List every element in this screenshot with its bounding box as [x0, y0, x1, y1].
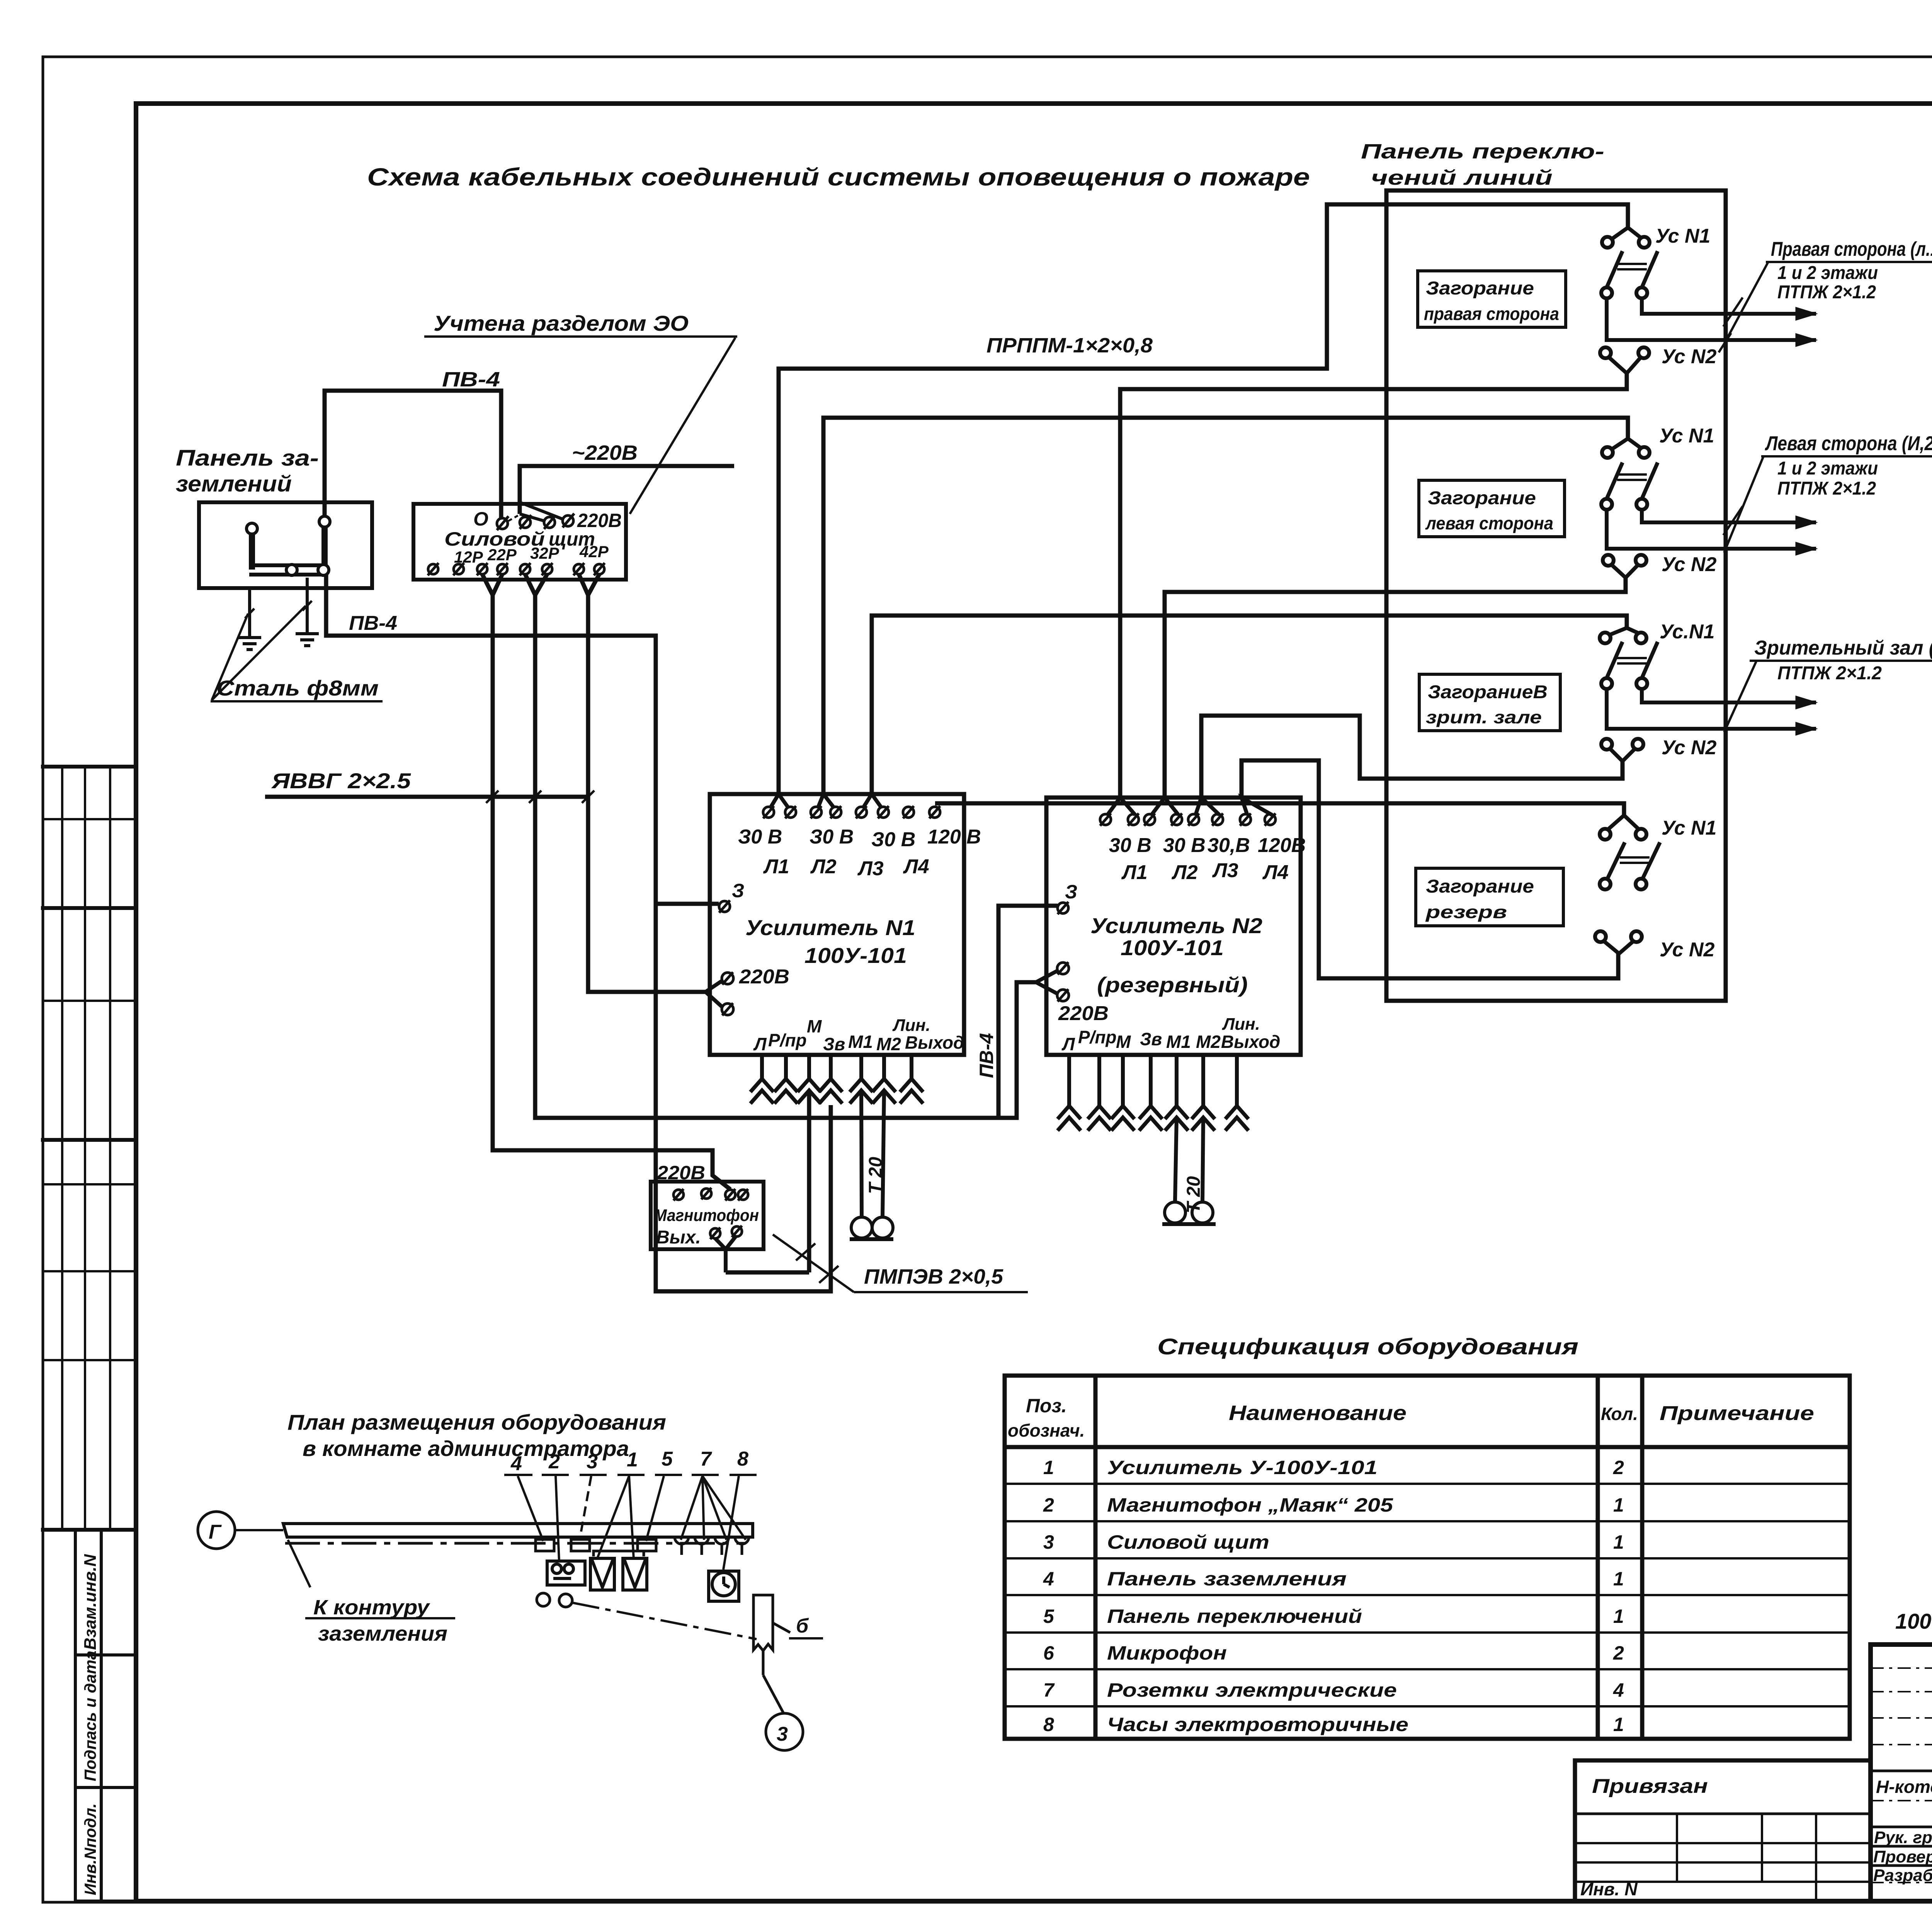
svg-text:ЗагораниеВ: ЗагораниеВ [1428, 682, 1548, 702]
wire: ~220V from щит to right [520, 466, 734, 522]
svg-text:землений: землений [176, 471, 292, 497]
svg-text:резерв: резерв [1425, 902, 1507, 922]
signal box Загорание правая сторона [1418, 271, 1566, 327]
svg-text:Инв. N: Инв. N [1580, 1879, 1638, 1899]
svg-text:К контуру: К контуру [313, 1596, 430, 1619]
arrow pair 1 output [1719, 298, 1816, 352]
svg-text:Р/пр: Р/пр [768, 1030, 807, 1050]
svg-text:1: 1 [1613, 1568, 1624, 1590]
switch group 4: Ус N2 selector [1595, 931, 1642, 954]
wire ЯВВГ 2х2.5 ground cable [265, 791, 594, 803]
svg-text:Микрофон: Микрофон [1107, 1642, 1227, 1664]
svg-text:Панель переключений: Панель переключений [1107, 1605, 1362, 1627]
grounding panel box [199, 502, 372, 650]
svg-text:6: 6 [1043, 1642, 1054, 1664]
svg-text:4: 4 [510, 1452, 522, 1475]
svg-text:100У-101: 100У-101 [804, 943, 907, 968]
svg-text:Ус.N1: Ус.N1 [1660, 621, 1714, 643]
svg-text:8: 8 [1043, 1714, 1054, 1735]
svg-text:ЯВВГ 2×2.5: ЯВВГ 2×2.5 [271, 769, 411, 793]
svg-text:ПТПЖ 2×1.2: ПТПЖ 2×1.2 [1777, 282, 1876, 303]
arrow ticks on drops [245, 609, 254, 618]
microphone on stand symbol [753, 1595, 790, 1713]
amp1 М wire down to tape deck output [726, 1090, 809, 1272]
svg-text:5: 5 [662, 1448, 673, 1470]
svg-text:ПВ-4: ПВ-4 [976, 1033, 997, 1078]
ground electrode left [249, 529, 255, 570]
ground symbol left [238, 636, 261, 639]
svg-text:правая сторона: правая сторона [1424, 304, 1559, 324]
svg-text:30 В: 30 В [1109, 834, 1151, 857]
switch group 1: Ус N1 selector [1601, 228, 1816, 340]
amp1 microphone wires М1 М2 [861, 1090, 884, 1217]
svg-text:Поз.: Поз. [1026, 1395, 1067, 1417]
svg-text:220В: 220В [1058, 1002, 1109, 1025]
svg-text:8: 8 [737, 1448, 748, 1470]
left stamp rotated-label boxes [75, 1530, 136, 1901]
svg-text:Часы электровторичные: Часы электровторичные [1107, 1714, 1408, 1735]
svg-text:Подпась и дата: Подпась и дата [81, 1651, 99, 1781]
left margin stamp grid [43, 767, 136, 1530]
signature grid [1871, 1645, 1932, 1901]
svg-text:7: 7 [1043, 1679, 1055, 1701]
svg-text:в комнате администратора: в комнате администратора [303, 1436, 629, 1461]
leader to ground loop [288, 1540, 455, 1618]
svg-text:32Р: 32Р [530, 544, 560, 562]
svg-text:Лин.: Лин. [1222, 1015, 1260, 1034]
svg-text:Л2: Л2 [1171, 861, 1198, 884]
room datum circle Г [198, 1512, 235, 1549]
switch group 4: Ус N1 selector (spare) [1600, 815, 1660, 889]
left attachment box Привязан [1575, 1760, 1871, 1901]
wire G4 feed2 from amp2 L4 (staircase) [1242, 760, 1618, 978]
svg-text:Загорание: Загорание [1428, 488, 1536, 509]
amplifiers #1 plan [590, 1551, 647, 1590]
wire G3 feed2 from amp2 L3 (staircase) [1201, 716, 1622, 798]
svg-text:М: М [1116, 1032, 1131, 1052]
switching panel box [1386, 190, 1726, 1001]
svg-text:Л: Л [1061, 1034, 1075, 1054]
svg-text:ПРППМ-1×2×0,8: ПРППМ-1×2×0,8 [986, 334, 1153, 357]
svg-text:ПВ-4: ПВ-4 [349, 612, 397, 634]
arrow pair 2 output [1723, 506, 1816, 555]
clock #8 plan [709, 1571, 739, 1601]
leader from Учтена to power panel [630, 338, 735, 514]
svg-text:чений линий: чений линий [1371, 166, 1553, 189]
svg-text:Н-котд: Н-котд [1876, 1777, 1932, 1797]
svg-text:Усилитель N1: Усилитель N1 [745, 915, 915, 940]
svg-text:Л1: Л1 [763, 855, 789, 878]
svg-text:4: 4 [1613, 1679, 1624, 1701]
wire G2 feed2 from amp2 L2 [1165, 578, 1626, 798]
signal box Загорание резерв [1416, 868, 1563, 926]
svg-text:Панель за-: Панель за- [176, 446, 319, 471]
svg-text:3: 3 [777, 1723, 788, 1745]
ground electrode right (ПВ-4 drop) [321, 522, 328, 570]
microphone 1 pair [850, 1217, 893, 1239]
svg-text:Левая сторона (И,2): Левая сторона (И,2) [1765, 432, 1932, 455]
amplifier U1 box [710, 794, 964, 1055]
svg-text:З: З [732, 880, 744, 901]
wire: ПВ-4 horizontal top run [325, 391, 501, 565]
svg-text:Зв: Зв [823, 1034, 845, 1054]
svg-text:3: 3 [1043, 1531, 1054, 1553]
svg-text:О: О [473, 508, 488, 530]
svg-text:ПМПЭВ 2×0,5: ПМПЭВ 2×0,5 [864, 1265, 1003, 1288]
svg-text:1: 1 [1043, 1457, 1054, 1478]
щит bottom terminals 8 circles [428, 563, 605, 575]
svg-text:Ус N1: Ус N1 [1659, 425, 1714, 447]
wire G1 feed2 from amp2 L1 [1120, 373, 1627, 798]
wire: 32Р pair merge and drop to amp2 220V [525, 574, 1036, 1118]
svg-text:ПВ-4: ПВ-4 [442, 368, 500, 391]
svg-text:Взам.инв.N: Взам.инв.N [81, 1554, 100, 1650]
svg-text:Панель заземления: Панель заземления [1107, 1568, 1347, 1590]
svg-text:М1: М1 [848, 1032, 873, 1052]
amp1 output stems and cable chevrons [750, 1055, 923, 1104]
svg-text:2: 2 [1613, 1642, 1624, 1664]
svg-text:30,В: 30,В [1207, 834, 1250, 857]
svg-text:100У-101: 100У-101 [1121, 935, 1224, 960]
power panel box Силовой щит [413, 504, 626, 580]
svg-text:Ус N1: Ус N1 [1655, 225, 1710, 247]
svg-text:Л1: Л1 [1121, 861, 1148, 884]
switch group 3: Ус N2 selector [1601, 739, 1643, 761]
svg-text:1: 1 [627, 1449, 638, 1471]
svg-text:План размещения оборудования: План размещения оборудования [287, 1410, 666, 1434]
svg-text:220В: 220В [656, 1162, 705, 1184]
svg-text:Л4: Л4 [903, 855, 929, 878]
svg-text:Ус N2: Ус N2 [1660, 939, 1715, 961]
щит top terminals [497, 514, 574, 530]
sockets #7 [675, 1537, 749, 1555]
arrow pair 3 output [1796, 696, 1816, 735]
svg-text:Сталь ф8мм: Сталь ф8мм [216, 676, 379, 700]
svg-text:1: 1 [1613, 1605, 1624, 1627]
svg-text:З0 В: З0 В [810, 826, 854, 848]
svg-text:ПТПЖ 2×1.2: ПТПЖ 2×1.2 [1777, 663, 1882, 684]
svg-text:Спецификация оборудования: Спецификация оборудования [1157, 1334, 1578, 1359]
svg-text:2: 2 [1613, 1457, 1624, 1478]
svg-text:Зрительный зал (И.3): Зрительный зал (И.3) [1754, 637, 1932, 659]
svg-text:З0 В: З0 В [871, 828, 915, 851]
svg-text:Л3: Л3 [1212, 859, 1238, 882]
svg-text:заземления: заземления [318, 1622, 447, 1645]
svg-text:Ус N2: Ус N2 [1662, 345, 1717, 368]
callout numbers row [510, 1448, 748, 1475]
svg-text:Ус N2: Ус N2 [1662, 553, 1717, 576]
tape recorder box Магнитофон [651, 1182, 764, 1249]
svg-text:Р/пр: Р/пр [1078, 1027, 1117, 1047]
svg-text:Рук. гр.: Рук. гр. [1874, 1828, 1932, 1847]
ground drop wires below panel [248, 588, 251, 637]
svg-text:М1: М1 [1166, 1032, 1191, 1052]
svg-text:1 и 2 этажи: 1 и 2 этажи [1777, 458, 1878, 479]
svg-text:Г: Г [209, 1521, 222, 1543]
svg-text:Правая сторона (л.1): Правая сторона (л.1) [1771, 238, 1932, 260]
svg-text:зрит. зале: зрит. зале [1426, 707, 1542, 727]
svg-text:1: 1 [1613, 1531, 1624, 1553]
ground bus bar [249, 563, 328, 567]
svg-text:М2: М2 [876, 1034, 901, 1054]
feed wire bundle between amplifiers and switch panel [779, 204, 1628, 978]
svg-text:Загорание: Загорание [1426, 876, 1534, 897]
svg-text:Выход: Выход [1221, 1032, 1280, 1052]
svg-text:22Р: 22Р [487, 546, 517, 564]
svg-text:Зв: Зв [1140, 1029, 1162, 1049]
svg-text:Панель переклю-: Панель переклю- [1361, 140, 1604, 163]
svg-text:ПТПЖ 2×1.2: ПТПЖ 2×1.2 [1777, 478, 1876, 499]
svg-text:5: 5 [1043, 1605, 1054, 1627]
switch group 1: Ус N2 selector [1600, 347, 1649, 391]
svg-text:Лин.: Лин. [892, 1016, 930, 1035]
svg-text:7: 7 [700, 1448, 712, 1470]
svg-text:2: 2 [548, 1451, 560, 1473]
svg-text:Проверил: Проверил [1873, 1847, 1932, 1866]
svg-text:2: 2 [1043, 1494, 1054, 1516]
wire: 42Р pair merge and drop to amp1 220V [579, 574, 706, 992]
svg-text:Привязан: Привязан [1592, 1775, 1708, 1798]
switch group 3: Ус N1 selector [1600, 628, 1816, 729]
svg-text:Т 20: Т 20 [1184, 1176, 1204, 1213]
svg-text:обознач.: обознач. [1008, 1420, 1085, 1440]
amplifier U2 box [1046, 798, 1301, 1055]
amp1 riser forks [770, 794, 881, 808]
amp2 top terminals [1100, 813, 1276, 826]
svg-text:Наименование: Наименование [1229, 1401, 1406, 1425]
signal box Загорание в зрит. зале [1419, 674, 1560, 731]
tape deck Вых merge wire [715, 1236, 736, 1272]
svg-text:Магнитофон: Магнитофон [654, 1206, 759, 1225]
position circle 3 [766, 1713, 803, 1750]
svg-text:120В: 120В [1258, 834, 1306, 857]
svg-text:Силовой щит: Силовой щит [1107, 1531, 1269, 1553]
svg-text:З0 В: З0 В [738, 826, 782, 848]
svg-text:Усилитель N2: Усилитель N2 [1090, 913, 1262, 938]
wire to amp2 З from ПВ-4 column [998, 906, 1058, 1118]
svg-text:Ус N1: Ус N1 [1662, 817, 1716, 839]
switch panel #5 [638, 1539, 656, 1551]
svg-text:Магнитофон „Маяк“ 205: Магнитофон „Маяк“ 205 [1107, 1494, 1393, 1516]
svg-text:Инв.Nподл.: Инв.Nподл. [81, 1803, 99, 1895]
wall mounted items: ground panel #4 [536, 1539, 554, 1551]
main title block outline [1871, 1645, 1932, 1901]
svg-text:Примечание: Примечание [1660, 1402, 1814, 1425]
amp1 top terminals [763, 806, 940, 818]
amp2 output stems and cable chevrons [1058, 1055, 1248, 1131]
svg-text:З: З [1065, 881, 1077, 903]
svg-text:4: 4 [1043, 1568, 1054, 1590]
svg-text:1: 1 [1613, 1494, 1624, 1516]
svg-text:Загорание: Загорание [1426, 278, 1534, 299]
svg-text:Учтена разделом ЭО: Учтена разделом ЭО [434, 311, 689, 335]
wire: ПВ-4 lower ground run to amplifiers [326, 575, 831, 1291]
power board #3 [571, 1539, 590, 1551]
svg-text:220В: 220В [739, 966, 789, 988]
svg-text:Л2: Л2 [810, 855, 837, 878]
svg-text:3: 3 [587, 1451, 598, 1473]
svg-text:левая сторона: левая сторона [1425, 513, 1553, 533]
microphone 2 pair [1162, 1202, 1216, 1224]
wire G4 feed1 [935, 803, 1624, 815]
svg-text:М2: М2 [1196, 1032, 1221, 1052]
svg-text:М: М [807, 1016, 822, 1036]
svg-text:10079/2: 10079/2 [1895, 1609, 1932, 1633]
wire: 22Р pair merge and drop to tape recorder [482, 574, 730, 1189]
tape recorder #2 plan [547, 1561, 585, 1585]
svg-text:Усилитель У-100У-101: Усилитель У-100У-101 [1107, 1457, 1378, 1478]
svg-text:Розетки электрические: Розетки электрические [1107, 1679, 1397, 1701]
svg-text:Выход: Выход [905, 1032, 964, 1053]
svg-text:Кол.: Кол. [1601, 1404, 1638, 1424]
svg-text:120 В: 120 В [927, 826, 981, 848]
wall strip [283, 1524, 753, 1543]
wire G3 feed1 from amp1 L3 [872, 616, 1627, 794]
wire ПРППМ run from amp1 L1 up over to switch group 1 [779, 204, 1628, 794]
svg-text:1 и 2 этажи: 1 и 2 этажи [1777, 263, 1878, 283]
svg-text:Л4: Л4 [1262, 861, 1289, 884]
svg-text:~220В: ~220В [572, 441, 638, 464]
svg-text:30 В: 30 В [1163, 834, 1206, 857]
svg-text:Ус N2: Ус N2 [1662, 736, 1717, 759]
switch group 2: Ус N1 selector [1601, 439, 1816, 549]
svg-text:42Р: 42Р [579, 543, 609, 561]
amp2 microphone wires [1175, 1117, 1203, 1202]
amp2 riser forks [1107, 798, 1272, 815]
svg-text:(резервный): (резервный) [1097, 973, 1248, 997]
svg-text:Т 20: Т 20 [866, 1157, 886, 1194]
switch group 2: Ус N2 selector [1603, 555, 1646, 578]
signal box Загорание левая сторона [1419, 480, 1565, 537]
wire G2 feed1 from amp1 L2 [823, 418, 1628, 794]
svg-text:Разраб.: Разраб. [1873, 1866, 1932, 1885]
svg-text:б: б [796, 1615, 809, 1637]
svg-text:Л3: Л3 [857, 857, 884, 880]
microphones #6 plan [537, 1593, 757, 1639]
svg-text:1: 1 [1613, 1714, 1624, 1735]
svg-text:Вых.: Вых. [656, 1227, 701, 1248]
svg-text:Схема кабельных соединений: Схема кабельных соединений системы опове… [367, 163, 1310, 191]
ground symbol right [296, 632, 319, 635]
svg-text:Л: Л [753, 1034, 767, 1054]
